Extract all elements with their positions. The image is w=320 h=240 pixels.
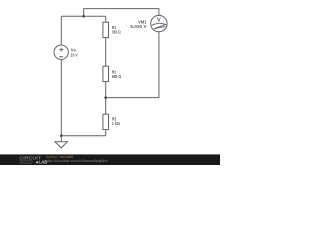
resistor R3 bbox=[103, 114, 109, 129]
resistor R1 bbox=[103, 22, 109, 37]
svg-text:1 kΩ: 1 kΩ bbox=[112, 121, 121, 126]
wire R1-R2 lead bbox=[105, 38, 107, 67]
svg-text:V: V bbox=[157, 18, 161, 24]
label Vs value bbox=[71, 19, 148, 126]
junction node ground bbox=[60, 134, 63, 137]
ground bbox=[55, 136, 68, 148]
svg-text:330 Ω: 330 Ω bbox=[112, 29, 121, 34]
junction node top bbox=[82, 15, 85, 18]
wire left rail upper bbox=[60, 16, 62, 45]
junction node mid tap bbox=[104, 96, 107, 99]
wire R2-R3 lead bbox=[105, 82, 107, 115]
svg-text:http://circuitlab.com/c/6trace: http://circuitlab.com/c/6traceu9pfg6ba bbox=[46, 159, 108, 163]
resistor R2 bbox=[103, 66, 109, 81]
voltmeter VM1 bbox=[151, 15, 167, 31]
wire left rail lower bbox=[60, 59, 62, 135]
logo lines bbox=[19, 161, 32, 163]
wire R3 bottom lead bbox=[105, 130, 107, 136]
wire R1 top lead bbox=[105, 16, 107, 22]
watermark bar bbox=[0, 154, 220, 165]
svg-text:680 Ω: 680 Ω bbox=[112, 74, 122, 79]
wire top rail bbox=[61, 15, 105, 17]
svg-text:10 V: 10 V bbox=[71, 53, 78, 58]
wire voltmeter stub up bbox=[84, 9, 159, 17]
wire bottom rail bbox=[61, 135, 105, 137]
wire voltmeter down to mid tap bbox=[106, 32, 159, 98]
voltage source Vs bbox=[54, 45, 68, 59]
svg-text:5.025 V: 5.025 V bbox=[130, 24, 146, 29]
